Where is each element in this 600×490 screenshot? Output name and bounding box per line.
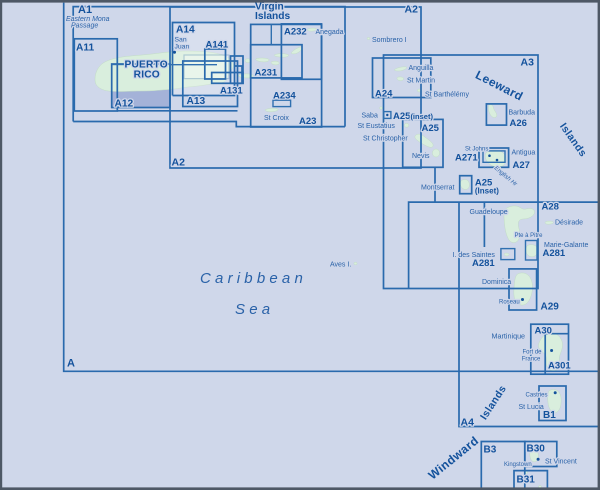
chart A4 upper left segment [434, 168, 436, 202]
svg-text:Anguilla: Anguilla [409, 65, 434, 72]
svg-text:Saba: Saba [362, 113, 378, 120]
island La Desirade [545, 221, 553, 224]
svg-text:St Eustatius: St Eustatius [358, 123, 396, 130]
svg-text:Nevis: Nevis [412, 153, 430, 160]
island Puerto Rico [95, 51, 233, 91]
svg-text:Anegada: Anegada [316, 29, 344, 36]
chart A29 outline [509, 269, 537, 310]
leader line right of PUERTO RICO label [170, 64, 217, 66]
Castries dot [554, 391, 557, 394]
chart A24 outline [373, 58, 431, 98]
island Sombrero dot [367, 37, 370, 39]
svg-text:Islands: Islands [255, 11, 290, 22]
svg-text:A14: A14 [176, 25, 195, 36]
chart A25 inset coverage box at Saba [384, 112, 391, 119]
Roseau dot [521, 298, 524, 301]
island Culebra [245, 59, 251, 63]
chart A234 outline [273, 100, 291, 106]
chart A outline [64, 3, 600, 372]
chart A27 outline [479, 148, 509, 167]
island St Eustatius dot [404, 123, 408, 127]
svg-text:A281: A281 [472, 258, 495, 269]
chart A12 shaded fill [112, 64, 170, 108]
svg-text:A3: A3 [521, 57, 535, 69]
Fort de France dot [550, 349, 553, 352]
svg-text:B3: B3 [484, 445, 497, 456]
St Johns dots [488, 154, 491, 157]
chart A13 bottom joining segment [117, 110, 237, 112]
svg-text:A26: A26 [510, 118, 527, 129]
island St Croix [265, 108, 278, 111]
svg-text:St Croix: St Croix [264, 115, 289, 122]
svg-text:Juan: Juan [175, 44, 190, 51]
island Anguilla [394, 67, 406, 71]
chart A30 outline [531, 324, 569, 374]
svg-text:Sea: Sea [235, 301, 274, 318]
svg-text:A11: A11 [76, 43, 94, 54]
chart A3 outline [384, 55, 539, 289]
inset light box near San Juan [184, 55, 229, 79]
svg-text:Roseau: Roseau [499, 300, 520, 306]
svg-text:B30: B30 [527, 444, 546, 455]
chart A271 inset outline [483, 151, 505, 162]
island Virgin Gorda [291, 47, 302, 54]
San Juan dot [173, 51, 176, 54]
svg-text:A25(inset): A25(inset) [393, 111, 433, 122]
svg-text:A2: A2 [405, 4, 419, 16]
svg-text:B1: B1 [543, 410, 556, 421]
chart A11 outline [74, 39, 117, 111]
island Martinique [538, 333, 562, 371]
svg-text:Montserrat: Montserrat [421, 185, 455, 192]
chart A28 outline [409, 202, 600, 288]
island Marie-Galante [526, 245, 538, 257]
svg-text:RICO: RICO [134, 70, 160, 81]
svg-text:Caribbean: Caribbean [200, 270, 307, 287]
chart A281 Marie-Galante box [526, 241, 538, 261]
svg-text:A231: A231 [255, 68, 278, 79]
svg-text:St Martin: St Martin [407, 78, 435, 85]
island St Martin [397, 77, 404, 81]
svg-text:A141: A141 [206, 40, 229, 51]
svg-text:Castries: Castries [526, 393, 548, 399]
svg-text:A: A [67, 358, 75, 370]
chart A26 outline [486, 104, 506, 125]
svg-text:A30: A30 [535, 326, 552, 337]
chart A131 outline (wide part) [212, 73, 243, 84]
island Montserrat [460, 180, 469, 190]
svg-text:A2: A2 [172, 157, 186, 169]
island St Vincent [530, 450, 539, 462]
chart A13 outline [183, 61, 238, 107]
island Antigua [485, 150, 506, 167]
svg-text:Sombrero I: Sombrero I [372, 37, 407, 44]
svg-text:St Christopher: St Christopher [363, 136, 408, 143]
svg-text:Fort de: Fort de [523, 350, 543, 356]
svg-text:A12: A12 [115, 99, 134, 110]
chart A14 light fill [173, 23, 235, 96]
chart A301 outline [545, 334, 568, 375]
svg-text:A27: A27 [513, 160, 530, 171]
island Barbuda [489, 104, 497, 117]
chart B31 outline [514, 471, 547, 490]
chart A2 outline [170, 7, 421, 168]
island Aves [354, 262, 357, 265]
chart A131 outline (tall part) [231, 56, 244, 83]
chart A23 outline [251, 24, 322, 127]
chart A4 outline [459, 202, 600, 426]
svg-text:A23: A23 [299, 116, 316, 127]
chart B30 outline [525, 442, 557, 467]
svg-text:(Inset): (Inset) [475, 187, 499, 196]
svg-text:San: San [175, 37, 187, 44]
chart A281 Les Saintes box [501, 249, 515, 260]
chart A12 outline [112, 64, 170, 108]
chart A141 outline [205, 49, 226, 79]
island Dominica [514, 273, 533, 305]
island St Lucia [548, 389, 561, 412]
svg-text:St Vincent: St Vincent [545, 459, 577, 466]
svg-text:A29: A29 [541, 302, 560, 313]
island Grenadines dots [524, 470, 527, 474]
svg-text:Barbuda: Barbuda [509, 110, 536, 117]
island St Barthelemy dot [417, 89, 421, 92]
chart A1 outline [73, 7, 345, 127]
island St John [271, 61, 279, 65]
svg-text:Guadeloupe: Guadeloupe [470, 209, 508, 216]
leader line left of PUERTO RICO label [112, 64, 126, 66]
svg-text:A28: A28 [542, 202, 559, 213]
chart A231 outline [251, 45, 302, 78]
Saba box dot [386, 114, 388, 116]
svg-text:A271: A271 [455, 153, 478, 164]
svg-text:Passage: Passage [71, 23, 98, 30]
island Vieques [238, 74, 253, 78]
svg-text:Pte à Pitre: Pte à Pitre [515, 233, 544, 239]
svg-text:Dominica: Dominica [482, 279, 511, 286]
island Guadeloupe [504, 206, 535, 243]
svg-text:B31: B31 [517, 475, 536, 486]
chart B3 outline [481, 442, 525, 490]
svg-text:Antigua: Antigua [512, 150, 536, 157]
short segment near A23 top [270, 24, 272, 44]
island St Kitts [415, 134, 433, 147]
island Anegada [307, 28, 317, 31]
svg-text:St Barthélémy: St Barthélémy [425, 92, 469, 99]
St Vincent dot [537, 458, 540, 461]
island Nevis [432, 149, 439, 157]
island Saba dot [380, 107, 383, 109]
svg-text:A24: A24 [375, 88, 393, 99]
svg-text:France: France [522, 356, 541, 362]
svg-text:Martinique: Martinique [492, 331, 526, 340]
svg-text:A232: A232 [284, 27, 307, 38]
chart A25 outline [403, 119, 443, 167]
chart line inside A28 [483, 202, 485, 247]
island Tortola [274, 54, 288, 58]
chart A25 inset box at Montserrat [460, 176, 472, 194]
chart B1 outline [539, 386, 566, 421]
island Les Saintes dots [504, 253, 509, 256]
svg-text:A281: A281 [543, 248, 566, 259]
svg-text:A4: A4 [461, 417, 475, 429]
svg-text:St Lucia: St Lucia [519, 404, 544, 411]
island St Thomas [256, 58, 269, 62]
chart A232 outline [281, 24, 321, 79]
chart A14 outline [173, 23, 243, 96]
svg-text:A13: A13 [187, 96, 206, 107]
svg-text:A1: A1 [78, 4, 92, 16]
svg-text:Kingstown: Kingstown [504, 462, 532, 468]
svg-text:Désirade: Désirade [555, 220, 583, 227]
svg-text:A131: A131 [220, 86, 243, 97]
svg-text:Aves I.: Aves I. [330, 262, 351, 269]
svg-text:A234: A234 [273, 90, 296, 101]
svg-text:A25: A25 [422, 123, 440, 134]
svg-text:A301: A301 [548, 361, 571, 372]
